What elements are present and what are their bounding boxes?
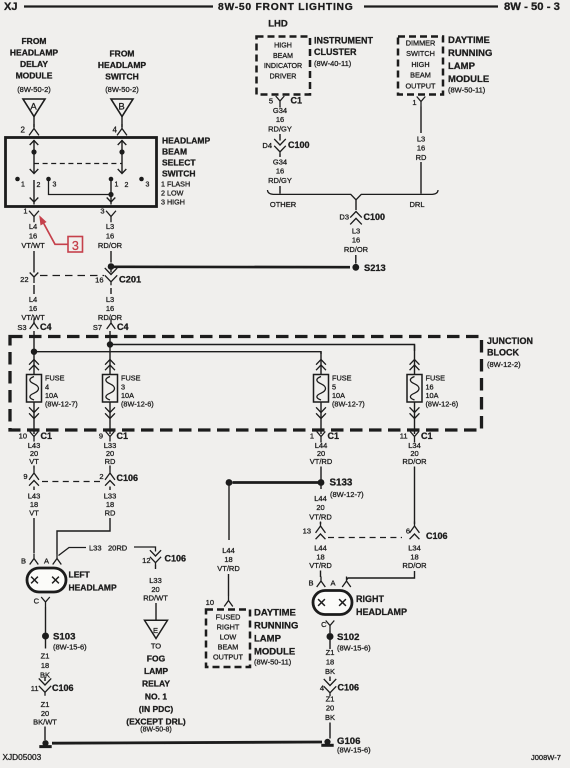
svg-text:9: 9	[23, 472, 27, 481]
svg-text:C106: C106	[338, 683, 360, 693]
svg-text:11: 11	[31, 684, 39, 693]
svg-text:FUSE: FUSE	[332, 374, 352, 383]
svg-text:16: 16	[106, 231, 114, 240]
svg-text:B: B	[118, 102, 124, 113]
svg-text:18: 18	[326, 658, 334, 667]
svg-text:(8W-50-2): (8W-50-2)	[105, 85, 139, 94]
svg-text:HIGH: HIGH	[274, 42, 292, 50]
svg-text:20RD: 20RD	[108, 544, 128, 553]
svg-text:16: 16	[417, 144, 425, 153]
svg-text:VT/WT: VT/WT	[21, 313, 45, 322]
svg-text:C1: C1	[117, 431, 129, 441]
svg-text:L44: L44	[314, 494, 327, 503]
svg-text:2 LOW: 2 LOW	[161, 189, 184, 198]
svg-text:S102: S102	[337, 632, 359, 643]
svg-text:3: 3	[72, 239, 79, 253]
svg-text:20: 20	[151, 585, 159, 594]
svg-text:LHD: LHD	[268, 19, 288, 30]
svg-text:SWITCH: SWITCH	[406, 49, 435, 58]
svg-text:C201: C201	[119, 275, 141, 285]
svg-text:RD/GY: RD/GY	[268, 176, 292, 185]
svg-text:10: 10	[19, 432, 27, 441]
svg-text:SELECT: SELECT	[162, 158, 196, 168]
svg-text:C1: C1	[291, 96, 303, 106]
svg-text:1: 1	[310, 432, 314, 441]
svg-text:1: 1	[412, 98, 416, 107]
svg-text:C1: C1	[421, 431, 433, 441]
svg-text:RD/OR: RD/OR	[98, 313, 123, 322]
svg-text:(8W-12-7): (8W-12-7)	[332, 400, 365, 409]
svg-text:RD/WT: RD/WT	[143, 594, 168, 603]
svg-text:L33: L33	[89, 544, 102, 553]
svg-text:A: A	[44, 557, 49, 566]
svg-text:L3: L3	[352, 227, 360, 236]
svg-text:S3: S3	[17, 323, 26, 332]
svg-text:(EXCEPT DRL): (EXCEPT DRL)	[126, 717, 186, 727]
svg-text:RD/OR: RD/OR	[402, 457, 427, 466]
svg-text:(8W-12-7): (8W-12-7)	[45, 400, 78, 409]
svg-text:4: 4	[113, 126, 118, 135]
svg-text:(8W-12-6): (8W-12-6)	[426, 400, 459, 409]
svg-text:MODULE: MODULE	[448, 74, 489, 85]
svg-text:9: 9	[99, 432, 103, 441]
svg-text:XJD05003: XJD05003	[3, 752, 42, 762]
svg-text:C4: C4	[117, 322, 129, 332]
svg-text:(8W-12-6): (8W-12-6)	[121, 400, 154, 409]
svg-text:FUSE: FUSE	[45, 374, 65, 383]
svg-text:16: 16	[29, 231, 37, 240]
svg-text:18: 18	[410, 552, 418, 561]
svg-text:20: 20	[41, 709, 49, 718]
svg-text:A: A	[30, 102, 37, 113]
svg-text:L3: L3	[106, 295, 114, 304]
svg-text:22: 22	[20, 275, 28, 284]
svg-text:RD/OR: RD/OR	[402, 561, 427, 570]
svg-text:3: 3	[53, 182, 57, 189]
svg-text:FUSE: FUSE	[121, 374, 141, 383]
svg-text:DRIVER: DRIVER	[270, 72, 297, 80]
svg-text:C106: C106	[52, 683, 74, 693]
svg-text:SWITCH: SWITCH	[162, 169, 196, 179]
svg-text:18: 18	[316, 552, 324, 561]
svg-text:DAYTIME: DAYTIME	[254, 608, 296, 619]
svg-text:(8W-50-2): (8W-50-2)	[17, 85, 51, 94]
svg-text:J008W-7: J008W-7	[531, 753, 561, 762]
svg-text:B: B	[21, 557, 26, 566]
svg-text:11: 11	[400, 432, 408, 441]
svg-text:LOW: LOW	[220, 633, 237, 642]
svg-text:VT/RD: VT/RD	[309, 561, 332, 570]
svg-text:VT: VT	[29, 457, 39, 466]
svg-text:BK: BK	[325, 713, 335, 722]
svg-text:L4: L4	[29, 222, 37, 231]
svg-text:FUSED: FUSED	[216, 613, 241, 622]
svg-text:HEADLAMP: HEADLAMP	[10, 48, 58, 58]
svg-text:LAMP: LAMP	[254, 634, 282, 645]
svg-text:BEAM: BEAM	[218, 643, 239, 652]
svg-text:18: 18	[224, 555, 232, 564]
svg-text:RD/OR: RD/OR	[98, 241, 123, 250]
svg-text:VT/RD: VT/RD	[217, 564, 240, 573]
svg-text:3 HIGH: 3 HIGH	[161, 198, 185, 207]
svg-text:C: C	[34, 597, 40, 606]
svg-text:(8W-50-8): (8W-50-8)	[140, 727, 171, 734]
svg-text:VT/RD: VT/RD	[309, 512, 332, 521]
svg-text:JUNCTION: JUNCTION	[487, 336, 533, 346]
svg-text:L33: L33	[149, 576, 162, 585]
svg-text:4: 4	[320, 684, 324, 693]
svg-text:G34: G34	[273, 106, 287, 115]
svg-text:1: 1	[21, 182, 25, 189]
svg-text:(8W-15-6): (8W-15-6)	[337, 746, 371, 755]
svg-text:(8W-50-11): (8W-50-11)	[254, 658, 292, 667]
svg-text:B: B	[308, 579, 313, 588]
svg-text:G34: G34	[273, 158, 287, 167]
svg-text:HEADLAMP: HEADLAMP	[162, 136, 210, 146]
svg-text:BK/WT: BK/WT	[33, 718, 57, 727]
svg-text:DELAY: DELAY	[20, 59, 48, 69]
svg-text:16: 16	[106, 304, 114, 313]
svg-text:INDICATOR: INDICATOR	[264, 62, 302, 70]
svg-text:2: 2	[125, 182, 129, 189]
svg-text:OUTPUT: OUTPUT	[406, 81, 437, 90]
svg-text:20: 20	[316, 503, 324, 512]
svg-text:DAYTIME: DAYTIME	[448, 35, 490, 46]
svg-text:3: 3	[146, 182, 150, 189]
svg-text:16: 16	[276, 167, 284, 176]
svg-text:C106: C106	[165, 554, 187, 564]
svg-text:FUSE: FUSE	[426, 374, 446, 383]
svg-text:Z1: Z1	[326, 648, 335, 657]
svg-text:RD: RD	[416, 153, 427, 162]
svg-text:(8W-12-2): (8W-12-2)	[487, 360, 521, 369]
svg-text:RD/GY: RD/GY	[268, 124, 292, 133]
svg-text:HEADLAMP: HEADLAMP	[356, 607, 407, 617]
svg-text:20: 20	[326, 704, 334, 713]
svg-text:HEADLAMP: HEADLAMP	[98, 60, 146, 70]
svg-text:13: 13	[303, 527, 311, 536]
svg-text:BLOCK: BLOCK	[487, 348, 519, 358]
svg-text:BK: BK	[325, 667, 335, 676]
svg-text:FOG: FOG	[147, 654, 166, 664]
svg-text:18: 18	[41, 661, 49, 670]
svg-text:FROM: FROM	[109, 49, 134, 59]
svg-text:C106: C106	[426, 531, 448, 541]
svg-text:RIGHT: RIGHT	[356, 594, 385, 604]
svg-text:A: A	[330, 579, 335, 588]
svg-text:S103: S103	[53, 632, 75, 643]
svg-text:5: 5	[269, 97, 273, 106]
svg-text:8W-50 FRONT LIGHTING: 8W-50 FRONT LIGHTING	[218, 2, 354, 13]
svg-text:1: 1	[23, 207, 27, 216]
svg-text:1 FLASH: 1 FLASH	[161, 180, 190, 189]
svg-text:6: 6	[406, 527, 410, 536]
svg-text:HIGH: HIGH	[411, 60, 429, 69]
svg-text:S133: S133	[330, 478, 353, 489]
svg-text:2: 2	[99, 472, 103, 481]
svg-text:Z1: Z1	[41, 700, 50, 709]
svg-text:INSTRUMENT: INSTRUMENT	[314, 36, 373, 46]
svg-text:OTHER: OTHER	[270, 200, 297, 209]
svg-text:LAMP: LAMP	[144, 666, 168, 676]
svg-text:MODULE: MODULE	[254, 647, 295, 658]
svg-text:(8W-15-6): (8W-15-6)	[53, 643, 87, 652]
svg-text:(8W-12-7): (8W-12-7)	[330, 490, 364, 499]
svg-text:3: 3	[100, 207, 104, 216]
svg-text:LAMP: LAMP	[448, 61, 476, 72]
svg-text:HEADLAMP: HEADLAMP	[69, 583, 117, 593]
svg-text:C100: C100	[364, 212, 386, 222]
svg-text:BEAM: BEAM	[273, 52, 293, 60]
svg-text:VT/WT: VT/WT	[21, 241, 45, 250]
svg-text:E: E	[153, 626, 158, 635]
svg-text:SWITCH: SWITCH	[105, 72, 139, 82]
svg-text:Z1: Z1	[41, 652, 50, 661]
svg-text:10: 10	[206, 598, 214, 607]
svg-text:Z1: Z1	[326, 695, 335, 704]
svg-text:CLUSTER: CLUSTER	[314, 47, 357, 57]
svg-text:RUNNING: RUNNING	[254, 621, 298, 632]
svg-text:C1: C1	[328, 431, 340, 441]
svg-text:DIMMER: DIMMER	[406, 39, 436, 48]
svg-text:16: 16	[352, 236, 360, 245]
svg-text:BEAM: BEAM	[162, 147, 187, 157]
svg-text:(8W-40-11): (8W-40-11)	[314, 59, 352, 68]
svg-text:RIGHT: RIGHT	[217, 623, 240, 632]
svg-text:L3: L3	[417, 135, 425, 144]
svg-text:MODULE: MODULE	[16, 71, 53, 81]
svg-text:VT: VT	[29, 509, 39, 518]
svg-text:16: 16	[276, 115, 284, 124]
svg-text:BEAM: BEAM	[410, 71, 431, 80]
svg-text:S7: S7	[93, 323, 102, 332]
svg-text:L4: L4	[29, 295, 37, 304]
svg-text:LEFT: LEFT	[69, 570, 91, 580]
svg-text:2: 2	[37, 182, 41, 189]
svg-text:1: 1	[115, 182, 119, 189]
svg-text:L44: L44	[222, 546, 235, 555]
svg-text:2: 2	[21, 126, 26, 135]
svg-text:(8W-50-11): (8W-50-11)	[448, 86, 486, 95]
svg-text:FROM: FROM	[21, 36, 46, 46]
svg-text:RD: RD	[105, 509, 116, 518]
svg-text:RELAY: RELAY	[142, 679, 170, 689]
svg-text:8W - 50 - 3: 8W - 50 - 3	[504, 1, 560, 13]
svg-text:VT/RD: VT/RD	[310, 457, 333, 466]
svg-text:RD: RD	[105, 457, 116, 466]
svg-text:16: 16	[29, 304, 37, 313]
svg-text:NO. 1: NO. 1	[145, 691, 167, 701]
svg-text:TO: TO	[151, 642, 161, 651]
svg-text:C100: C100	[288, 140, 310, 150]
svg-text:D3: D3	[339, 213, 349, 222]
svg-text:C106: C106	[117, 473, 139, 483]
svg-text:RUNNING: RUNNING	[448, 48, 492, 59]
svg-text:OUTPUT: OUTPUT	[213, 653, 244, 662]
svg-text:S213: S213	[364, 263, 386, 273]
svg-text:XJ: XJ	[4, 1, 17, 13]
svg-text:DRL: DRL	[409, 200, 424, 209]
svg-text:D4: D4	[262, 141, 272, 150]
svg-text:RD/OR: RD/OR	[344, 245, 369, 254]
svg-text:12: 12	[142, 556, 150, 565]
svg-text:L3: L3	[106, 222, 114, 231]
svg-text:(8W-15-6): (8W-15-6)	[337, 644, 371, 653]
svg-text:C4: C4	[40, 322, 52, 332]
svg-text:L44: L44	[314, 544, 327, 553]
svg-text:(IN PDC): (IN PDC)	[139, 704, 174, 714]
svg-text:L34: L34	[408, 544, 421, 553]
svg-text:16: 16	[95, 276, 103, 285]
svg-text:C1: C1	[41, 431, 53, 441]
